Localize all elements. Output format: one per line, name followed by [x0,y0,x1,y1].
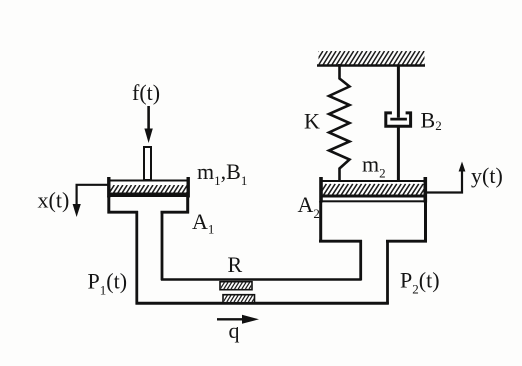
svg-text:x(t): x(t) [38,188,70,213]
svg-text:K: K [304,109,320,134]
svg-text:P1(t): P1(t) [88,269,128,298]
svg-text:B2: B2 [421,108,442,134]
svg-text:m2: m2 [362,152,386,181]
svg-text:R: R [228,252,243,277]
svg-text:A1: A1 [192,209,214,237]
svg-text:f(t): f(t) [132,80,160,105]
svg-text:y(t): y(t) [471,163,503,188]
svg-text:m1,B1: m1,B1 [197,159,247,188]
svg-text:P2(t): P2(t) [400,268,440,297]
svg-text:A2: A2 [298,192,320,221]
svg-text:q: q [229,318,240,343]
